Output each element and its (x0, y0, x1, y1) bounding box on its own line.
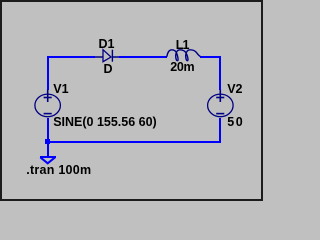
voltage source V1 (35, 90, 61, 117)
label D (104, 63, 113, 76)
ground (40, 144, 56, 163)
label L1 (176, 39, 189, 52)
wire left vertical lower (47, 118, 49, 157)
label 20m (170, 61, 194, 74)
wire right vertical lower (219, 118, 221, 143)
spice directive .tran (26, 164, 91, 177)
label D1 (99, 38, 115, 51)
diode D1 (95, 50, 119, 62)
junction at V1 bottom node (45, 139, 50, 144)
wire left vertical upper (47, 56, 49, 90)
label SINE value (53, 116, 157, 129)
label 50 (227, 116, 244, 129)
voltage source V2 (208, 90, 234, 117)
wire bottom horizontal (47, 141, 221, 143)
label V2 (227, 83, 242, 96)
wire right vertical upper (219, 56, 221, 90)
label V1 (53, 83, 68, 96)
wire top-middle horizontal (119, 56, 167, 58)
wire top-left horizontal (47, 56, 95, 58)
wire top-right horizontal (200, 56, 221, 58)
inductor L1 (167, 50, 201, 61)
